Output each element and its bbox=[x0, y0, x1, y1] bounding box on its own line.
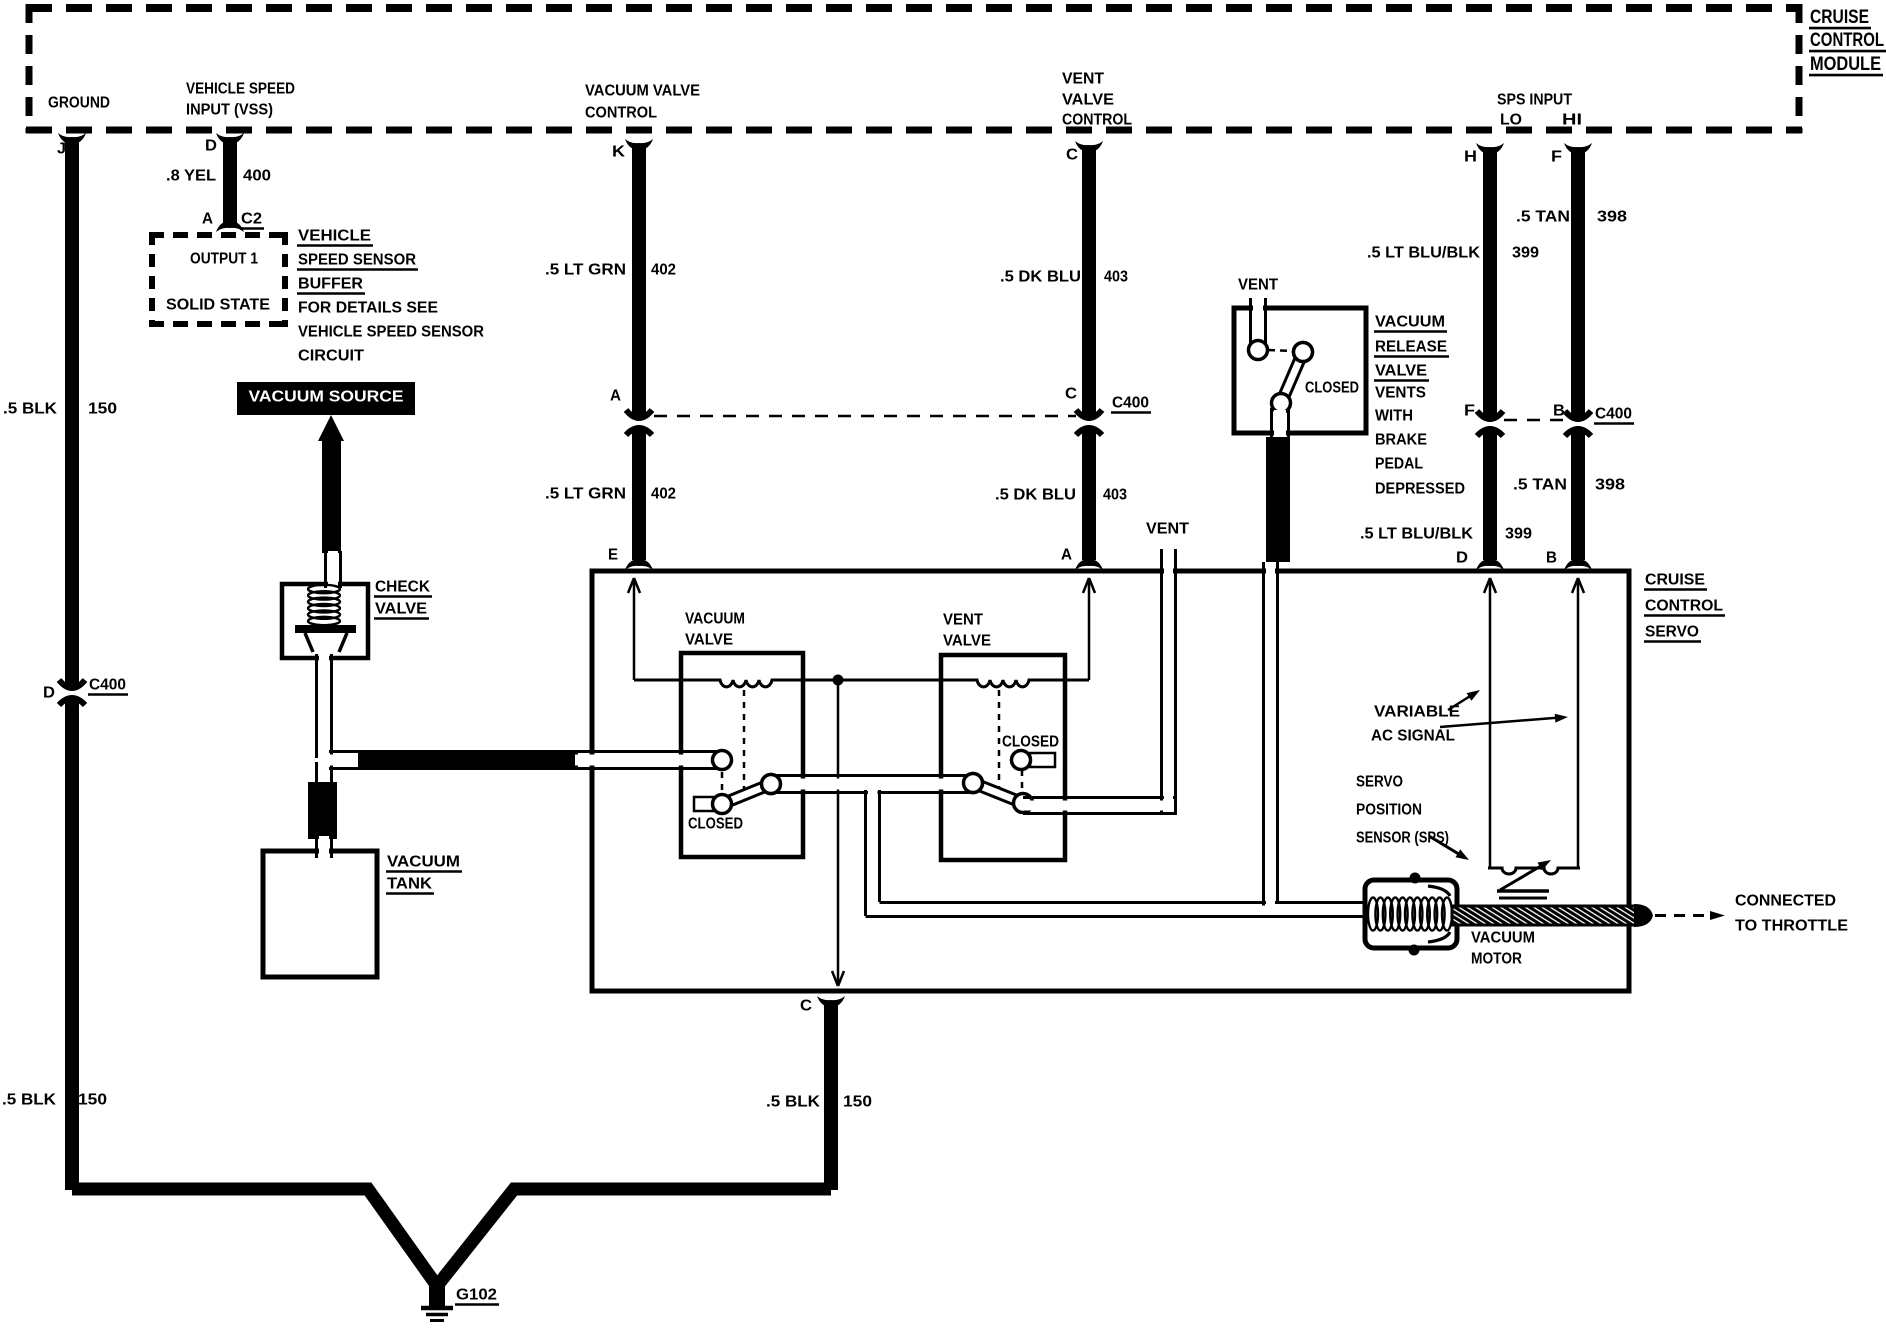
vacuum hose (black) tank tube upper bbox=[308, 782, 337, 839]
wire: E arrow to vacuum valve coil bbox=[633, 578, 636, 680]
vacuum valve box bbox=[681, 653, 803, 857]
svg-text:SOLID STATE: SOLID STATE bbox=[166, 297, 270, 314]
wire: junction to vent valve coil bbox=[838, 680, 1089, 687]
svg-text:CIRCUIT: CIRCUIT bbox=[298, 348, 365, 365]
svg-text:FOR DETAILS SEE: FOR DETAILS SEE bbox=[298, 300, 438, 317]
svg-text:150: 150 bbox=[88, 401, 117, 418]
svg-text:.5 BLK: .5 BLK bbox=[3, 401, 58, 418]
vacuum valve inlet port circle bbox=[713, 751, 732, 770]
svg-text:398: 398 bbox=[1597, 209, 1627, 226]
vacuum tank box bbox=[263, 851, 377, 977]
svg-text:MOTOR: MOTOR bbox=[1471, 951, 1522, 968]
svg-text:150: 150 bbox=[843, 1094, 872, 1111]
svg-text:A: A bbox=[610, 388, 621, 405]
svg-text:BRAKE: BRAKE bbox=[1375, 432, 1427, 449]
vehicle speed sensor buffer box (dashed) bbox=[149, 232, 288, 327]
svg-text:403: 403 bbox=[1104, 269, 1128, 286]
C wire (.5 DK BLU 403) bbox=[1082, 148, 1096, 419]
vacuum valve coil L1 bbox=[634, 680, 838, 687]
sps pointer arrow bbox=[1429, 836, 1462, 856]
vacuum valve lever bbox=[722, 784, 771, 804]
svg-text:VACUUM: VACUUM bbox=[1471, 930, 1535, 947]
svg-text:VARIABLE: VARIABLE bbox=[1374, 704, 1460, 721]
svg-text:SENSOR (SPS): SENSOR (SPS) bbox=[1356, 830, 1449, 847]
svg-text:VALVE: VALVE bbox=[1375, 363, 1427, 380]
vacuum hose (black) source to check valve bbox=[322, 439, 341, 553]
svg-text:SERVO: SERVO bbox=[1645, 624, 1699, 641]
cruise control servo box bbox=[592, 571, 1629, 991]
svg-text:D: D bbox=[43, 685, 55, 702]
tube interiors (white) bbox=[771, 779, 973, 790]
release valve pivot circle bbox=[1294, 343, 1313, 362]
svg-text:LO: LO bbox=[1500, 112, 1522, 129]
svg-text:.5 TAN: .5 TAN bbox=[1513, 477, 1567, 494]
vent valve plunger dashed bbox=[998, 690, 1001, 793]
svg-text:402: 402 bbox=[651, 486, 676, 503]
wire: vent valve coil to A arrow bbox=[1088, 578, 1091, 680]
svg-text:C: C bbox=[1066, 147, 1078, 164]
svg-text:VACUUM SOURCE: VACUUM SOURCE bbox=[249, 389, 404, 406]
svg-text:OUTPUT 1: OUTPUT 1 bbox=[190, 251, 258, 268]
svg-text:K: K bbox=[612, 144, 626, 161]
svg-text:VALVE: VALVE bbox=[685, 632, 733, 649]
svg-text:CRUISE: CRUISE bbox=[1645, 572, 1705, 589]
svg-text:RELEASE: RELEASE bbox=[1375, 339, 1447, 356]
tube: tee to servo (walls) bbox=[319, 750, 364, 753]
connector C400 on ground wire bbox=[59, 680, 85, 688]
svg-text:399: 399 bbox=[1505, 526, 1532, 543]
svg-text:CONTROL: CONTROL bbox=[1645, 598, 1723, 615]
vss wire D (.8 YEL 400) bbox=[223, 140, 237, 223]
svg-text:VENT: VENT bbox=[1062, 71, 1105, 88]
vacuum valve closed stop bbox=[694, 797, 717, 811]
svg-text:.5 LT BLU/BLK: .5 LT BLU/BLK bbox=[1360, 526, 1474, 543]
svg-text:VACUUM: VACUUM bbox=[1375, 314, 1445, 331]
svg-text:VACUUM: VACUUM bbox=[685, 611, 745, 628]
dashed link to throttle bbox=[1655, 914, 1706, 917]
ground wire J (.5 BLK 150) bbox=[65, 140, 79, 689]
svg-text:SPEED SENSOR: SPEED SENSOR bbox=[298, 252, 416, 269]
svg-text:C400: C400 bbox=[1595, 406, 1632, 423]
svg-text:CLOSED: CLOSED bbox=[688, 816, 743, 833]
connector dashed line A-C C400 bbox=[654, 415, 1076, 418]
svg-text:F: F bbox=[1551, 149, 1562, 166]
svg-text:.5 BLK: .5 BLK bbox=[2, 1092, 57, 1109]
svg-text:C: C bbox=[800, 998, 812, 1015]
check valve spring bbox=[308, 585, 340, 593]
svg-text:CONTROL: CONTROL bbox=[1810, 30, 1884, 51]
svg-text:C2: C2 bbox=[241, 211, 262, 228]
svg-text:SERVO: SERVO bbox=[1356, 774, 1403, 791]
servo C terminal wire (.5 BLK 150) bbox=[824, 1004, 838, 1190]
svg-text:.8 YEL: .8 YEL bbox=[166, 168, 216, 185]
svg-text:CLOSED: CLOSED bbox=[1305, 380, 1359, 397]
svg-text:CONTROL: CONTROL bbox=[1062, 112, 1132, 129]
tube into tank bbox=[315, 836, 318, 858]
check valve disc bbox=[295, 625, 356, 633]
svg-text:VACUUM VALVE: VACUUM VALVE bbox=[585, 83, 700, 100]
H wire (.5 LT BLU/BLK 399) bbox=[1483, 150, 1497, 420]
svg-text:B: B bbox=[1546, 550, 1557, 567]
junction node bbox=[833, 675, 844, 686]
tube branch down to motor line (walls) bbox=[864, 790, 867, 916]
svg-text:BUFFER: BUFFER bbox=[298, 276, 363, 293]
vent valve closed stop bbox=[1030, 753, 1055, 767]
SPS wire B with arrow bbox=[1577, 578, 1580, 868]
svg-text:VALVE: VALVE bbox=[375, 601, 427, 618]
vacuum motor spring bbox=[1368, 898, 1378, 931]
svg-text:VENT: VENT bbox=[1238, 277, 1279, 294]
svg-text:399: 399 bbox=[1512, 245, 1539, 262]
svg-text:TANK: TANK bbox=[387, 876, 433, 893]
connector dashed line F-B C400 bbox=[1504, 419, 1564, 422]
svg-text:E: E bbox=[608, 547, 618, 564]
svg-text:CHECK: CHECK bbox=[375, 579, 431, 596]
vacuum source arrow bbox=[318, 415, 344, 441]
svg-text:.5 DK BLU: .5 DK BLU bbox=[1000, 269, 1081, 286]
svg-text:.5 TAN: .5 TAN bbox=[1516, 209, 1570, 226]
tube into check valve bbox=[324, 551, 327, 588]
svg-text:400: 400 bbox=[243, 168, 271, 185]
svg-text:POSITION: POSITION bbox=[1356, 802, 1422, 819]
release valve port circle bbox=[1249, 341, 1268, 360]
svg-text:D: D bbox=[1456, 550, 1468, 567]
svg-text:G102: G102 bbox=[456, 1287, 497, 1304]
svg-text:CONNECTED: CONNECTED bbox=[1735, 893, 1836, 910]
svg-text:A: A bbox=[202, 211, 213, 228]
vacuum hose (black) release valve bbox=[1266, 437, 1290, 562]
svg-text:VENTS: VENTS bbox=[1375, 385, 1426, 402]
svg-text:F: F bbox=[1464, 403, 1475, 420]
vent valve box bbox=[941, 655, 1065, 860]
svg-text:A: A bbox=[1061, 547, 1072, 564]
svg-text:CLOSED: CLOSED bbox=[1002, 734, 1059, 751]
svg-text:HI: HI bbox=[1562, 112, 1582, 129]
svg-text:VALVE: VALVE bbox=[1062, 92, 1114, 109]
tube: vacuum valve to vent valve (walls) bbox=[771, 774, 973, 777]
svg-text:C400: C400 bbox=[89, 677, 126, 694]
svg-text:WITH: WITH bbox=[1375, 408, 1413, 425]
svg-text:.5 BLK: .5 BLK bbox=[766, 1094, 821, 1111]
tube: branch to vacuum motor (walls) bbox=[866, 915, 1369, 918]
wire: junction down to C terminal arrow bbox=[837, 680, 840, 986]
servo position sensor element bbox=[1488, 868, 1580, 874]
vacuum release tube inside servo (walls) bbox=[1262, 562, 1265, 914]
ground run to G102 bbox=[72, 1189, 831, 1286]
svg-text:GROUND: GROUND bbox=[48, 95, 110, 112]
svg-text:VENT: VENT bbox=[943, 612, 984, 629]
svg-text:SPS INPUT: SPS INPUT bbox=[1497, 92, 1572, 109]
ground symbol G102 bbox=[429, 1286, 445, 1306]
cruise control module box (dashed) bbox=[26, 4, 1802, 133]
vacuum motor shaft (hatched) bbox=[1452, 906, 1638, 925]
check valve box bbox=[282, 584, 368, 658]
svg-text:VALVE: VALVE bbox=[943, 633, 991, 650]
svg-text:403: 403 bbox=[1103, 487, 1127, 504]
vacuum release valve box bbox=[1234, 308, 1366, 433]
tube: hose into vacuum valve (walls) bbox=[575, 750, 718, 753]
svg-text:D: D bbox=[205, 138, 217, 155]
variable ac signal arrows bbox=[1448, 693, 1475, 710]
tube: check valve to tee bbox=[315, 654, 318, 758]
check valve seat bbox=[305, 633, 313, 652]
svg-text:C400: C400 bbox=[1112, 395, 1149, 412]
vent stack tube (walls) bbox=[1160, 549, 1163, 812]
svg-text:CRUISE: CRUISE bbox=[1810, 7, 1869, 28]
svg-text:398: 398 bbox=[1595, 477, 1625, 494]
svg-text:CONTROL: CONTROL bbox=[585, 105, 657, 122]
vent valve lever bbox=[973, 783, 1023, 803]
svg-text:INPUT (VSS): INPUT (VSS) bbox=[186, 102, 273, 119]
svg-text:VACUUM: VACUUM bbox=[387, 854, 460, 871]
svg-text:.5 DK BLU: .5 DK BLU bbox=[995, 487, 1076, 504]
svg-text:.5 LT BLU/BLK: .5 LT BLU/BLK bbox=[1367, 245, 1481, 262]
svg-text:PEDAL: PEDAL bbox=[1375, 456, 1423, 473]
vent tube into release valve bbox=[1249, 298, 1252, 344]
svg-text:VEHICLE SPEED: VEHICLE SPEED bbox=[186, 81, 295, 98]
release valve lever bbox=[1281, 352, 1303, 403]
svg-text:VEHICLE SPEED SENSOR: VEHICLE SPEED SENSOR bbox=[298, 324, 484, 341]
vacuum hose (black) tee to servo bbox=[358, 750, 578, 770]
tube: vent valve to vent stack (walls) bbox=[1023, 796, 1177, 799]
svg-text:H: H bbox=[1464, 149, 1477, 166]
svg-text:DEPRESSED: DEPRESSED bbox=[1375, 481, 1465, 498]
svg-text:B: B bbox=[1553, 403, 1565, 420]
svg-text:.5 LT GRN: .5 LT GRN bbox=[545, 262, 626, 279]
svg-text:VEHICLE: VEHICLE bbox=[298, 228, 371, 245]
release valve dashed link bbox=[1268, 350, 1293, 351]
vent valve port circle bbox=[1012, 751, 1031, 770]
svg-text:VENT: VENT bbox=[1146, 521, 1190, 538]
svg-text:402: 402 bbox=[651, 262, 676, 279]
vacuum motor body bbox=[1365, 880, 1457, 948]
tube: release valve down to hose bbox=[1270, 408, 1273, 440]
svg-text:MODULE: MODULE bbox=[1810, 54, 1881, 75]
svg-text:C: C bbox=[1065, 386, 1077, 403]
vacuum valve plunger dashed bbox=[743, 690, 746, 793]
svg-text:AC SIGNAL: AC SIGNAL bbox=[1371, 728, 1455, 745]
SPS wire D with arrow bbox=[1489, 578, 1492, 868]
vacuum source block bbox=[237, 382, 415, 415]
tube: tee down to tank bbox=[315, 762, 318, 788]
svg-text:150: 150 bbox=[78, 1092, 107, 1109]
svg-text:TO THROTTLE: TO THROTTLE bbox=[1735, 918, 1848, 935]
tube whites (tee junction) bbox=[319, 654, 329, 786]
svg-text:.5 LT GRN: .5 LT GRN bbox=[545, 486, 626, 503]
svg-text:J: J bbox=[57, 141, 66, 158]
K wire (.5 LT GRN 402) bbox=[632, 146, 646, 419]
F wire (.5 TAN 398) bbox=[1571, 150, 1585, 420]
